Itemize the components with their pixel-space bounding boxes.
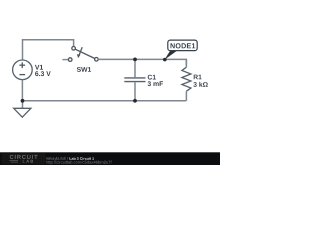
label V1: [35, 65, 43, 70]
watermark text line 1: [46, 157, 68, 161]
watermark logo lines: [9, 161, 18, 163]
switch SW1: [68, 47, 98, 62]
label C1: [148, 75, 156, 80]
V1 plus sign: [19, 62, 25, 74]
label 6.3 V: [35, 71, 51, 76]
junction dot at NODE1 tail: [163, 58, 167, 62]
wire from switch to R1 corner: [98, 59, 186, 65]
label 3 mF: [148, 81, 163, 86]
watermark logo LAB: [23, 160, 33, 163]
label R1: [194, 75, 202, 80]
V1 minus sign: [19, 74, 25, 76]
junction dot at C1 top: [133, 58, 137, 62]
wire bottom rail: [23, 100, 187, 102]
V1 bottom lead: [21, 80, 23, 101]
watermark logo panel: [2, 153, 46, 164]
capacitor C1 plates: [124, 78, 145, 82]
R1 top lead: [185, 59, 187, 67]
node NODE1 pointer: [165, 50, 178, 59]
capacitor C1 bottom lead: [134, 82, 136, 101]
label NODE1: [171, 43, 196, 48]
switch arrow head: [77, 54, 81, 58]
label 3 kOhm: [193, 82, 207, 87]
voltage source V1 circle: [13, 60, 33, 80]
watermark text line 2: [46, 161, 111, 165]
ground: [22, 101, 24, 108]
watermark logo CIRCUIT: [10, 155, 38, 159]
label SW1: [77, 67, 91, 72]
junction dot at C1 bottom: [133, 99, 137, 103]
switch SW1 open-throw stub: [62, 59, 68, 61]
resistor R1 zigzag: [182, 67, 191, 91]
wire top-left from V1 to switch: [23, 40, 74, 60]
capacitor C1 top lead: [134, 59, 136, 77]
junction dot at ground: [21, 99, 25, 103]
watermark bar: [0, 152, 220, 165]
node NODE1 box: [168, 40, 197, 51]
R1 bottom lead: [185, 91, 187, 101]
